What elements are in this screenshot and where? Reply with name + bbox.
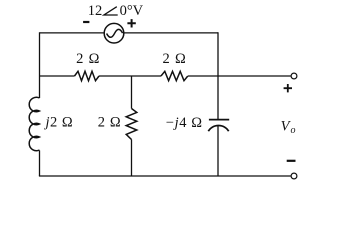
svg-text:12: 12 — [88, 3, 103, 19]
output minus sign — [287, 160, 296, 162]
source plus sign — [127, 19, 135, 27]
wire top-right segment — [124, 32, 218, 34]
wire middle row — [40, 75, 292, 77]
svg-text:2 Ω: 2 Ω — [163, 51, 187, 67]
wire bottom — [39, 175, 291, 177]
wire top-left segment — [40, 32, 104, 34]
wire middle vertical — [131, 76, 133, 176]
capacitor C1 top plate — [209, 119, 229, 121]
resistor R2 2ohm horizontal right — [161, 71, 188, 80]
terminal bottom circle — [291, 173, 297, 179]
svg-text:2 Ω: 2 Ω — [76, 51, 100, 67]
source V1 sine wave — [107, 29, 123, 37]
wire right vertical (capacitor branch) — [217, 32, 219, 176]
wire left vertical lower — [39, 151, 41, 177]
svg-text:0°V: 0°V — [120, 3, 144, 19]
svg-text:2 Ω: 2 Ω — [98, 114, 121, 130]
resistor R3 2ohm vertical middle — [126, 109, 137, 140]
wire left vertical upper — [39, 32, 41, 98]
terminal top circle — [291, 73, 297, 79]
output plus sign — [284, 84, 292, 92]
source minus sign — [83, 21, 89, 23]
capacitor C1 curved plate — [208, 126, 228, 132]
svg-text:j2 Ω: j2 Ω — [44, 115, 74, 131]
inductor L1 j2ohm — [29, 97, 39, 150]
svg-text:−j4 Ω: −j4 Ω — [166, 115, 203, 131]
resistor R1 2ohm horizontal left — [75, 71, 100, 80]
source V1 circle — [104, 23, 124, 43]
label 12 angle 0 V — [88, 3, 144, 19]
